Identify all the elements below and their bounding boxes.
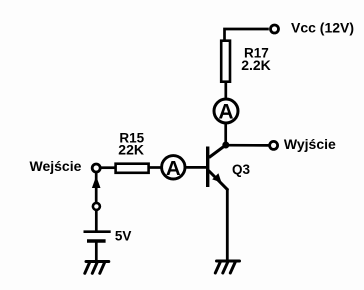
wire base to ammeter A1 [186,166,207,169]
svg-text:Q3: Q3 [232,162,251,177]
wire R17 to ammeter A2 [224,82,227,99]
wire Wejscie terminal down to arrow [95,173,98,181]
battery 5V plate short [87,239,106,242]
ammeter A1 [162,156,185,180]
svg-text:5V: 5V [115,229,132,244]
node collector junction [222,142,229,149]
svg-text:2.2K: 2.2K [241,57,271,73]
wire battery to left ground [95,242,98,261]
resistor R15 [116,164,149,173]
ground right [215,261,239,273]
wire arrow to test node [95,188,98,202]
wire R15 to A1 [150,166,161,169]
battery 5V plate long [84,230,111,233]
terminal Wyjscie [270,141,278,149]
wire test node to battery [95,211,98,232]
svg-text:22K: 22K [118,142,144,158]
transistor Q3 [208,145,228,189]
node test point [93,203,100,210]
terminal Wejscie [92,164,100,172]
emitter lead [209,171,227,189]
base bar [206,147,209,188]
terminal Vcc [271,25,279,33]
wire A2 to collector node [224,124,227,146]
arrow input polarity [92,176,101,188]
svg-text:A: A [166,157,181,180]
collector lead [209,145,226,158]
wire Vcc terminal to R17 corner [225,29,269,41]
ground left [85,262,109,274]
ammeter A2 [214,99,238,124]
resistor R17 [221,41,230,82]
wire emitter to right ground [226,189,229,260]
svg-text:Wejście: Wejście [30,158,82,174]
wire collector node to Wyjscie terminal [226,144,269,147]
svg-text:Wyjście: Wyjście [284,136,336,152]
svg-text:A: A [218,101,233,124]
svg-text:Vcc (12V): Vcc (12V) [291,19,354,35]
emitter arrow [212,173,221,182]
wire Wejscie terminal to R15 [101,166,115,169]
